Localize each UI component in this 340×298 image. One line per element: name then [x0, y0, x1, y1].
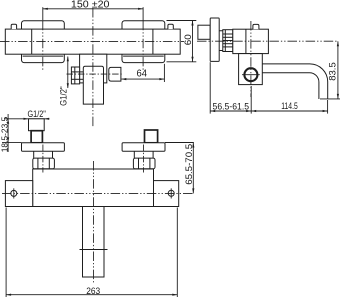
dimension 263 [6, 208, 177, 298]
front view center axis [92, 8, 94, 128]
right connector cap [109, 67, 121, 81]
dimension 64 [121, 64, 164, 82]
hand shower connector centerline [67, 73, 123, 75]
right ear [154, 181, 179, 207]
svg-text:263: 263 [86, 286, 100, 297]
svg-text:G1/2": G1/2" [59, 86, 69, 106]
valve body (side view) [233, 29, 269, 53]
bottom view center axis [93, 161, 95, 284]
svg-text:65.5-70.5: 65.5-70.5 [184, 144, 195, 185]
left connection axis (bottom view) [42, 145, 44, 173]
spout axis [250, 21, 252, 97]
dimension G1/2 (bottom view) [5, 109, 50, 120]
drop tube (bottom view) [80, 207, 108, 278]
svg-text:150 ±20: 150 ±20 [71, 0, 110, 11]
dimension 65.5-70.5 [165, 143, 195, 194]
handle knob [83, 66, 103, 104]
svg-text:64: 64 [137, 68, 148, 79]
svg-text:83.5: 83.5 [328, 62, 339, 81]
body top button [253, 24, 259, 29]
right neck lines [134, 151, 153, 158]
right escutcheon (bottom view) [122, 143, 165, 152]
left mounting hole [11, 188, 17, 198]
left neck lines [34, 151, 53, 158]
svg-text:18.5-23.5: 18.5-23.5 [0, 116, 10, 152]
knurled ring [223, 30, 233, 52]
dimension 150 ±20 [43, 0, 143, 22]
neck [219, 31, 223, 51]
mixer bar [5, 29, 180, 54]
left supply stub (bottom view) [29, 119, 45, 131]
svg-text:G1/2": G1/2" [28, 109, 46, 119]
holes centerline [2, 192, 193, 194]
svg-text:56.5-61.5: 56.5-61.5 [213, 102, 250, 113]
wall bar body (bottom view) [33, 169, 154, 207]
outlet boss [80, 54, 107, 83]
dimension 83.5 [320, 41, 340, 99]
front view centerline [0, 40, 184, 42]
wall flange (side view) [210, 18, 219, 61]
spout joint circle [242, 68, 260, 81]
spout block [239, 54, 263, 85]
right connection axis (bottom view) [143, 145, 145, 173]
left escutcheon (bottom view) [22, 143, 65, 152]
dimension 60 [167, 21, 197, 62]
side view centerline [197, 40, 338, 42]
right connection axis [142, 21, 144, 70]
left hose connector [71, 67, 83, 84]
left connection axis [42, 21, 44, 70]
left hex nut [33, 158, 55, 169]
svg-text:60: 60 [183, 34, 193, 45]
right hex nut [133, 158, 155, 169]
right eccentric square [145, 130, 158, 143]
right screw bump [168, 24, 173, 29]
right mounting hole [168, 188, 174, 198]
svg-text:114.5: 114.5 [281, 101, 298, 112]
G1/2 leader (front view) [59, 56, 69, 106]
wall stub (side view) [198, 25, 210, 39]
left ear [5, 181, 32, 207]
spout [262, 64, 327, 99]
dimension 114.5 [251, 86, 327, 114]
left escutcheon [22, 21, 65, 63]
right escutcheon [122, 21, 165, 63]
left screw bump [11, 24, 16, 29]
dimension 18.5-23.5 [0, 114, 21, 152]
left eccentric square [31, 131, 42, 143]
dimension 56.5-61.5 [210, 62, 251, 113]
